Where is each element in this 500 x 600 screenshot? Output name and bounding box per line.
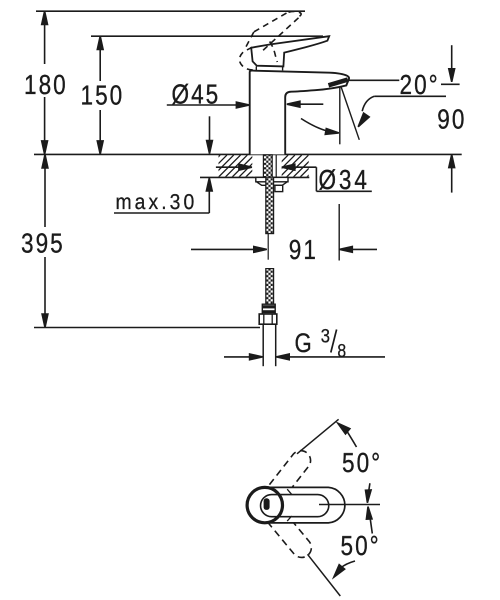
- svg-text:180: 180: [24, 69, 68, 100]
- counter bottom line: [200, 176, 309, 178]
- dim 150 vertical: [97, 36, 103, 154]
- water stream vertical reference: [339, 87, 341, 145]
- counter top surface line: [34, 153, 462, 155]
- hose nut: [259, 314, 277, 324]
- svg-text:3: 3: [321, 325, 330, 347]
- pivot circle (bold): [247, 487, 282, 522]
- svg-text:8: 8: [337, 340, 346, 362]
- hose upper segment: [266, 177, 274, 233]
- handle pin blob: [264, 498, 270, 510]
- hose lower segment: [266, 269, 274, 305]
- svg-text:50°: 50°: [342, 447, 382, 478]
- aerator: [329, 80, 348, 86]
- 50 deg lower arc arrow: [334, 561, 355, 577]
- extension line bottom (395 ref): [34, 327, 260, 329]
- washer plate: [256, 177, 288, 181]
- dashed handle rotated down 50: [260, 500, 311, 557]
- water stream 20 deg line: [341, 88, 359, 140]
- 50 deg upper leader line: [297, 419, 339, 454]
- svg-text:Ø45: Ø45: [172, 78, 221, 109]
- fitting block: [275, 185, 283, 191]
- svg-text:50°: 50°: [341, 530, 381, 561]
- 50 deg lower leader line: [308, 554, 341, 596]
- side tube line: [275, 155, 277, 177]
- svg-text:20°: 20°: [400, 69, 440, 100]
- faucet body and spout: [250, 71, 349, 155]
- dim 180 vertical: [42, 11, 48, 154]
- arrow to mounting surface: [207, 116, 213, 153]
- svg-text:150: 150: [81, 80, 125, 111]
- svg-text:G: G: [295, 329, 312, 359]
- G3/8 tube: [262, 324, 264, 366]
- svg-text:max.30: max.30: [116, 190, 198, 214]
- dim 395 vertical: [42, 155, 48, 328]
- extension line top (180 ref): [36, 10, 305, 12]
- 20 deg leader from spout: [349, 79, 400, 81]
- label leader Ø45: [167, 102, 250, 108]
- dim 90: [441, 45, 460, 192]
- 50 deg upper arc arrow: [338, 423, 357, 447]
- angle arrows at centerline: [366, 483, 373, 533]
- dim 91: [191, 204, 377, 261]
- counter hatch right: [266, 155, 329, 177]
- max.30 leader: [114, 178, 212, 213]
- svg-text:395: 395: [21, 228, 65, 259]
- dashed handle rotated up 50: [260, 451, 311, 509]
- svg-text:91: 91: [289, 234, 318, 265]
- 20 deg underline: [374, 95, 446, 97]
- inner stadium: [261, 495, 329, 517]
- ferrule: [262, 304, 275, 314]
- outer stadium (handle top view): [248, 487, 345, 523]
- nut trapezoid: [257, 182, 288, 186]
- 20 deg arc arrow left: [301, 119, 339, 135]
- dim G3/8: [224, 330, 385, 360]
- center line: [319, 504, 380, 506]
- Ø34 arrows at hole: [216, 164, 372, 191]
- label max.30: [116, 190, 198, 214]
- handle neck ticks: [255, 67, 257, 71]
- chamfer lines: [274, 489, 280, 494]
- mounting shank (threaded): [263, 155, 272, 177]
- svg-text:90: 90: [437, 104, 466, 135]
- svg-text:Ø34: Ø34: [319, 164, 370, 195]
- label G 3/8: [295, 325, 347, 361]
- extension line (150 ref): [91, 35, 323, 37]
- dashed raised handle: [239, 11, 301, 69]
- inner arrow (Ø45 right side): [287, 101, 323, 107]
- handle lever (solid): [251, 36, 329, 66]
- counter hatch left: [198, 155, 275, 177]
- 20 deg arc arrow right: [358, 96, 374, 127]
